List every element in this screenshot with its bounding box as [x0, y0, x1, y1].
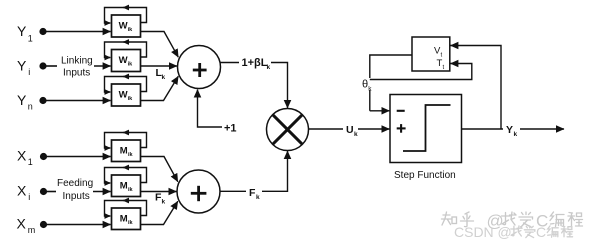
svg-text:M: M [120, 181, 128, 192]
svg-text:Step Function: Step Function [394, 170, 456, 181]
svg-text:+1: +1 [224, 123, 237, 135]
svg-text:M: M [120, 214, 128, 225]
svg-text:θ: θ [362, 78, 368, 90]
svg-text:k: k [514, 131, 518, 138]
svg-text:i: i [28, 192, 30, 202]
svg-text:n: n [28, 102, 33, 112]
svg-text:X: X [17, 148, 27, 164]
svg-text:i: i [28, 67, 30, 77]
svg-text:U: U [346, 124, 354, 136]
svg-text:X: X [17, 216, 27, 232]
svg-text:m: m [28, 225, 36, 235]
svg-text:k: k [162, 199, 166, 206]
svg-text:F: F [249, 187, 256, 199]
svg-text:1: 1 [28, 157, 33, 167]
svg-text:Feeding: Feeding [57, 178, 93, 189]
svg-text:M: M [120, 146, 128, 157]
svg-text:Y: Y [17, 92, 27, 108]
svg-text:Linking: Linking [61, 56, 93, 67]
svg-text:k: k [368, 86, 372, 93]
svg-text:k: k [267, 64, 271, 71]
svg-text:W: W [119, 90, 128, 101]
svg-text:Y: Y [17, 23, 27, 39]
svg-text:W: W [119, 21, 128, 32]
svg-text:Inputs: Inputs [63, 191, 90, 202]
svg-text:1+βL: 1+βL [242, 57, 268, 69]
svg-text:Inputs: Inputs [63, 68, 90, 79]
svg-text:W: W [119, 55, 128, 66]
svg-text:Y: Y [506, 124, 513, 136]
svg-text:X: X [17, 183, 27, 199]
svg-text:C: C [536, 224, 546, 240]
svg-text:k: k [354, 131, 358, 138]
svg-text:CSDN @: CSDN @ [454, 224, 512, 240]
svg-text:k: k [162, 74, 166, 81]
svg-text:Y: Y [17, 58, 27, 74]
svg-text:k: k [256, 194, 260, 201]
svg-text:1: 1 [28, 33, 33, 43]
